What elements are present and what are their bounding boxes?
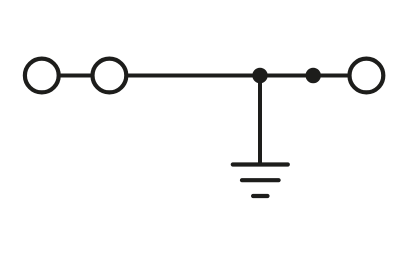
terminal circle 1 (left connection point) bbox=[25, 59, 59, 93]
junction dot 1 (ground tap node) bbox=[252, 68, 267, 83]
terminal circle 2 (second connection point) bbox=[93, 59, 127, 93]
junction dot 2 bbox=[306, 68, 321, 83]
wire: junction dot 1 to junction dot 2 bbox=[260, 74, 313, 78]
terminal circle 3 (right connection point) bbox=[350, 59, 384, 93]
wire: circle 1 to circle 2 bbox=[58, 74, 93, 78]
wire: junction dot 2 to circle 3 bbox=[313, 74, 350, 78]
wire: circle 2 to junction dot 1 bbox=[126, 74, 260, 78]
wire: junction dot 1 down to ground bbox=[258, 76, 262, 165]
ground (earth symbol, three bars) bbox=[233, 165, 288, 197]
